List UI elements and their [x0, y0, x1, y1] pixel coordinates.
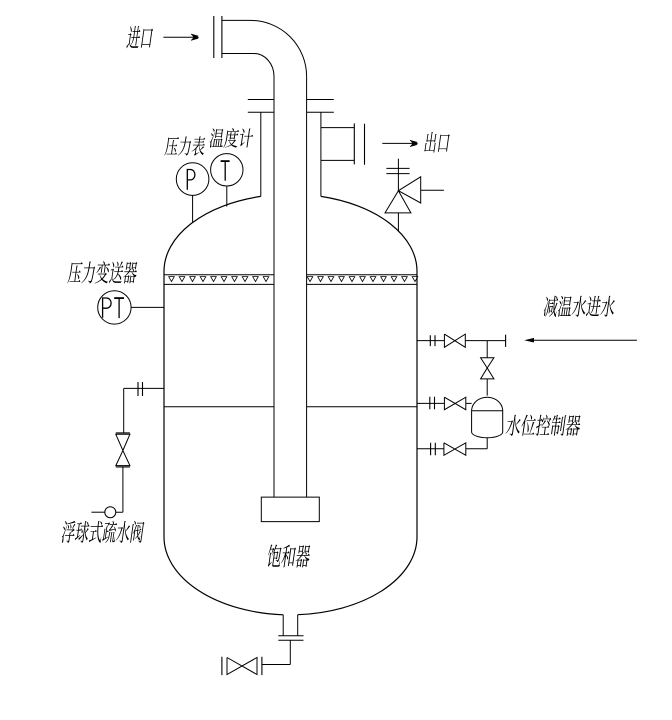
bottom flange — [278, 636, 303, 641]
row2 valve — [444, 397, 465, 410]
row1 end flange bar — [505, 335, 507, 347]
row1 branch drop — [486, 341, 488, 358]
safety valve outlet line — [421, 189, 444, 191]
row2 union bars — [430, 397, 435, 410]
steam trap float — [105, 507, 116, 518]
bottom nozzle — [283, 615, 298, 636]
pressure gauge stem — [192, 195, 194, 222]
left nozzle line — [124, 387, 164, 389]
bottom drain pipe — [262, 640, 290, 664]
vessel top head — [164, 196, 261, 271]
label 温度计 — [209, 128, 254, 148]
pressure transmitter PT letters — [103, 298, 112, 318]
thermometer T letter — [221, 160, 230, 162]
vessel shell — [164, 271, 417, 537]
safety valve bonnet lines — [386, 168, 409, 173]
distributor box — [261, 497, 319, 521]
pressure transmitter PT circle — [98, 291, 131, 324]
safety valve stem — [397, 159, 399, 231]
vessel bottom head — [164, 537, 283, 615]
row3 valve — [444, 443, 466, 456]
left union bars — [138, 382, 143, 396]
liquid level line — [164, 406, 417, 408]
row1 union bars — [430, 335, 435, 346]
inlet flow arrow — [163, 36, 196, 38]
vessel neck — [261, 112, 321, 196]
label 饱和器 — [266, 544, 311, 567]
riser pipe — [274, 76, 307, 497]
label 浮球式疏水阀 — [61, 521, 145, 543]
row2 pipe — [417, 402, 472, 404]
label 出口 — [424, 132, 450, 153]
outlet flange — [354, 123, 364, 164]
pressure gauge P letter — [187, 169, 195, 189]
inlet pipe elbow — [222, 20, 307, 76]
row1 valve — [444, 334, 465, 347]
bottom valve — [227, 658, 257, 675]
branch vertical valve — [481, 358, 494, 379]
packing layer band — [164, 275, 417, 285]
safety valve body — [385, 177, 421, 213]
pressure transmitter lead line — [131, 306, 164, 308]
label 压力变送器 — [67, 261, 138, 283]
trap outlet line — [91, 511, 104, 513]
pressure gauge P circle — [176, 163, 209, 196]
row3 union bars — [431, 443, 436, 456]
thermometer T circle — [211, 154, 243, 186]
label 水位控制器 — [505, 415, 582, 436]
label 减温水进水 — [543, 296, 616, 317]
left drop pipe — [123, 388, 125, 433]
row3 riser to controller — [486, 438, 488, 449]
neck flange — [248, 100, 334, 113]
thermometer stem — [226, 186, 228, 207]
outlet flow arrow — [382, 142, 415, 144]
inlet flange — [214, 16, 222, 58]
label 压力表 — [164, 136, 206, 156]
trap drop pipe — [116, 467, 123, 512]
spray water supply arrow — [534, 339, 637, 341]
label 进口 — [126, 26, 153, 49]
row1 pipe — [417, 340, 506, 342]
left valve — [116, 433, 130, 467]
outlet nozzle — [321, 128, 354, 161]
bottom valve flange bars — [222, 657, 262, 675]
level controller vessel — [472, 397, 503, 438]
branch drop to controller — [486, 379, 488, 396]
row3 pipe — [417, 448, 487, 450]
